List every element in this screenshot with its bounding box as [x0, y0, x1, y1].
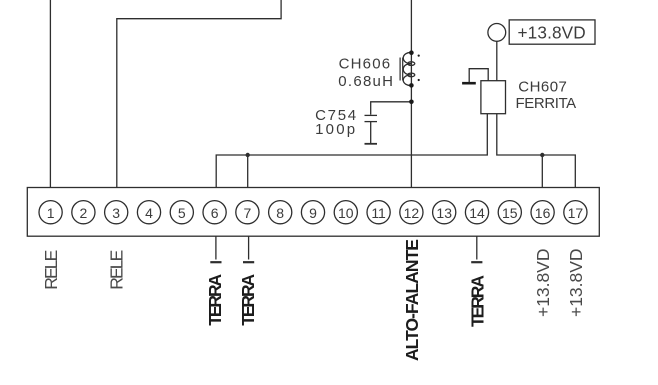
svg-text:12: 12	[404, 205, 420, 221]
wire pin3 to top	[117, 0, 281, 188]
junction node pin7/terra	[246, 153, 250, 157]
stub pin6 terra	[210, 236, 221, 262]
svg-text:5: 5	[178, 205, 186, 221]
svg-text:3: 3	[112, 205, 120, 221]
connector J box	[27, 188, 599, 237]
node CH606 bottom	[409, 83, 414, 88]
pin 3	[105, 201, 128, 224]
wire pin1 to top	[49, 0, 51, 188]
pin 9	[301, 201, 324, 224]
node CH606 top	[409, 50, 414, 55]
svg-text:CH607: CH607	[518, 78, 567, 95]
ground bar (CH607 shield)	[462, 82, 476, 85]
phase dot bottom	[418, 79, 420, 81]
svg-text:FERRITA: FERRITA	[516, 95, 577, 112]
svg-text:2: 2	[80, 205, 88, 221]
svg-text:16: 16	[535, 205, 551, 221]
pin 11	[367, 201, 390, 224]
svg-text:6: 6	[211, 205, 219, 221]
pin 6	[203, 201, 226, 224]
pin 8	[269, 201, 292, 224]
pin 1	[39, 201, 62, 224]
svg-text:RELE: RELE	[41, 250, 61, 290]
svg-text:4: 4	[145, 205, 153, 221]
wire +13.8VD bus right	[497, 114, 576, 188]
svg-text:1: 1	[47, 205, 55, 221]
wire pin16 drop	[541, 155, 543, 188]
pin 5	[170, 201, 193, 224]
junction node pin16/+13.8VD	[540, 153, 544, 157]
wire CH607 top to terminal circle	[496, 41, 498, 80]
svg-text:CH606: CH606	[339, 55, 391, 72]
svg-text:TERRA: TERRA	[205, 273, 225, 325]
wire terra bus left	[216, 114, 487, 188]
svg-text:11: 11	[371, 205, 386, 221]
svg-text:+13.8VD: +13.8VD	[566, 249, 586, 318]
wire CH607 shield L to ground	[469, 69, 488, 82]
svg-text:RELE: RELE	[107, 250, 127, 290]
phase dot top	[418, 55, 420, 57]
node C754 junction	[409, 100, 414, 105]
svg-text:7: 7	[244, 205, 252, 221]
svg-text:13: 13	[436, 205, 452, 221]
svg-text:8: 8	[276, 205, 284, 221]
stub pin14 terra	[471, 236, 482, 262]
pin 16	[531, 201, 554, 224]
svg-text:TERRA: TERRA	[468, 275, 488, 327]
wire pin7 drop	[247, 155, 249, 188]
svg-text:ALTO-FALANTE: ALTO-FALANTE	[402, 239, 422, 361]
pin 10	[334, 201, 357, 224]
capacitor C754	[365, 102, 412, 144]
pin 14	[465, 201, 488, 224]
stub pin7 terra	[243, 236, 254, 262]
svg-text:+13.8VD: +13.8VD	[518, 23, 586, 43]
pin 7	[236, 201, 259, 224]
pin 12	[400, 201, 423, 224]
wire pin12 vertical (alto-falante net)	[410, 0, 412, 188]
pin 15	[498, 201, 521, 224]
svg-text:17: 17	[568, 205, 584, 221]
inductor CH606	[403, 52, 415, 85]
svg-text:TERRA: TERRA	[238, 273, 258, 325]
inductor CH606 core lines	[400, 58, 403, 81]
terminal circle +13.8VD	[488, 24, 506, 42]
svg-text:14: 14	[469, 205, 485, 221]
pin 13	[433, 201, 456, 224]
svg-text:+13.8VD: +13.8VD	[533, 249, 553, 318]
svg-text:9: 9	[309, 205, 317, 221]
net label box +13.8VD	[509, 20, 595, 44]
pin 2	[72, 201, 95, 224]
svg-text:10: 10	[338, 205, 354, 221]
svg-text:15: 15	[502, 205, 518, 221]
svg-text:0.68uH: 0.68uH	[338, 73, 393, 90]
pin 4	[137, 201, 160, 224]
pin 17	[564, 201, 587, 224]
ferrite bead CH607	[481, 81, 506, 114]
